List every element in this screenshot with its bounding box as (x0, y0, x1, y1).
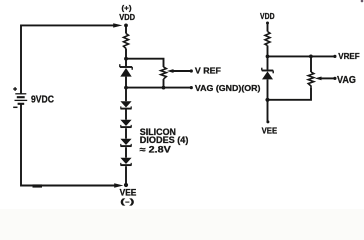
svg-text:VDD: VDD (119, 13, 135, 22)
svg-text:DIODES (4): DIODES (4) (140, 135, 189, 145)
svg-text:VEE: VEE (262, 126, 278, 136)
svg-text:V REF: V REF (195, 66, 221, 76)
svg-text:VAG (GND)(OR): VAG (GND)(OR) (195, 83, 261, 93)
svg-text:VREF: VREF (338, 51, 360, 61)
svg-text:≈ 2.8V: ≈ 2.8V (140, 145, 171, 155)
svg-text:(-): (-) (120, 197, 135, 206)
svg-text:VAG: VAG (337, 75, 356, 86)
svg-text:9VDC: 9VDC (31, 95, 54, 106)
svg-text:VDD: VDD (260, 12, 275, 21)
svg-text:(+): (+) (122, 6, 132, 13)
